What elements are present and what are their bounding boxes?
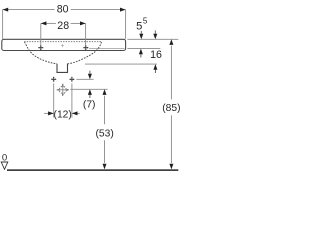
svg-text:16: 16 xyxy=(150,49,162,61)
inner deck line right segment xyxy=(89,48,125,50)
drain box xyxy=(57,64,68,73)
drain level line xyxy=(70,88,107,90)
bowl outline right dashed curve xyxy=(68,42,102,64)
washbasin slab outline xyxy=(2,39,126,50)
drain target symbol xyxy=(57,84,69,96)
bowl outline left dashed curve xyxy=(25,42,57,64)
dimension (85) xyxy=(162,39,180,169)
floor line xyxy=(7,169,178,171)
svg-text:(53): (53) xyxy=(95,128,113,139)
svg-text:(12): (12) xyxy=(54,109,72,120)
deck center mark xyxy=(61,44,64,47)
svg-text:(85): (85) xyxy=(162,103,180,114)
dimension (53) xyxy=(95,89,113,169)
svg-text:80: 80 xyxy=(57,4,69,16)
fixing hole level line xyxy=(76,78,93,80)
svg-text:5: 5 xyxy=(143,17,148,26)
hidden bowl rim dashed line xyxy=(24,41,101,43)
fixing hole cross left xyxy=(51,77,56,82)
dimension 5.5 xyxy=(136,17,148,58)
dimension (12) xyxy=(44,83,80,120)
dimension 80 xyxy=(3,4,126,39)
tap hole cross left xyxy=(38,45,43,50)
svg-text:28: 28 xyxy=(57,20,69,32)
dimension 28 xyxy=(41,20,86,45)
basin top reference line xyxy=(127,38,178,40)
dimension (7) xyxy=(83,71,96,111)
tap hole cross right xyxy=(83,45,88,50)
datum 0 xyxy=(1,153,8,170)
apron bottom reference line xyxy=(127,48,160,50)
bowl bottom reference line xyxy=(85,63,157,65)
dimension 16 xyxy=(150,30,162,73)
svg-text:(7): (7) xyxy=(83,99,96,110)
fixing hole cross right xyxy=(70,77,75,82)
